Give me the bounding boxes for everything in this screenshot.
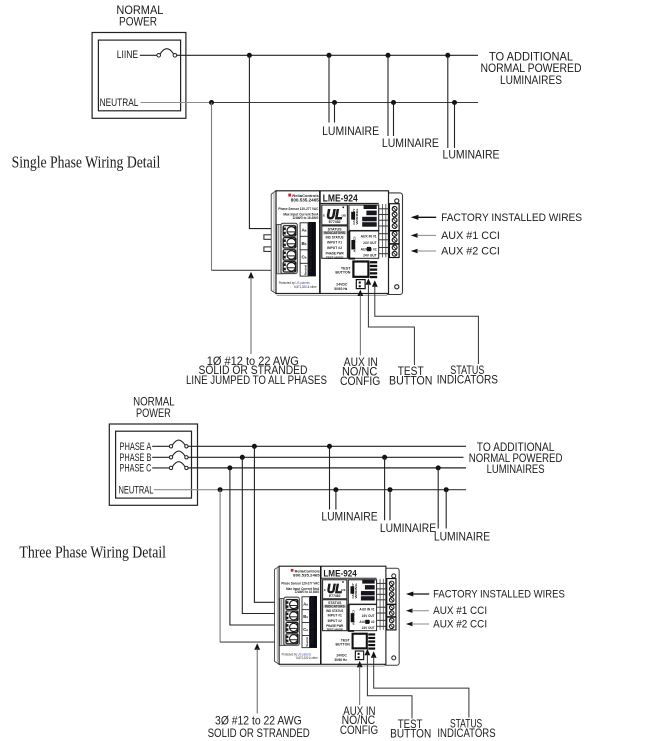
junction on NEUTRAL at feeder <box>209 100 214 105</box>
svg-text:LUMINAIRES: LUMINAIRES <box>487 462 545 476</box>
svg-text:AUX #1 CCI: AUX #1 CCI <box>433 605 487 617</box>
svg-text:POWER: POWER <box>119 15 157 29</box>
junction on NEUTRAL lum2 <box>391 100 396 105</box>
panel inner box <box>116 431 192 498</box>
svg-text:LUMINAIRES: LUMINAIRES <box>500 73 562 87</box>
wire neutral in panel <box>141 102 212 104</box>
wire lum2 neutral drop <box>393 103 395 137</box>
wire lum3 neutral drop <box>445 490 447 529</box>
svg-text:Single Phase Wiring Detail: Single Phase Wiring Detail <box>12 153 161 172</box>
junction NEUTRAL lum2 <box>388 487 393 492</box>
svg-text:LUMINAIRE: LUMINAIRE <box>321 510 377 524</box>
svg-text:LIINE: LIINE <box>117 49 138 61</box>
phase sensor U1 <box>271 191 402 296</box>
junction on NEUTRAL lum3 <box>452 100 457 105</box>
breaker CB1 <box>157 54 161 58</box>
wire NEUTRAL bus <box>220 489 466 491</box>
jumper stub to terminal C <box>264 247 284 252</box>
junction NEUTRAL lum1 <box>333 487 338 492</box>
junction on LINE lum3 <box>445 53 450 58</box>
test button callout leader <box>365 649 371 655</box>
wire lum1 phase drop <box>329 446 331 509</box>
aux in config callout leader <box>357 661 363 667</box>
wire lum3 line drop <box>447 55 449 148</box>
jumper stub to terminal B <box>264 235 284 240</box>
svg-text:PHASE C: PHASE C <box>120 462 152 474</box>
phase sensor U2 <box>275 566 400 666</box>
status indicators callout leader <box>371 651 377 657</box>
junction PHASE B feeder <box>240 455 245 460</box>
wire feeder neutral to U1 terminal N <box>212 269 285 271</box>
svg-text:NEUTRAL: NEUTRAL <box>100 97 139 109</box>
svg-text:INDICATORS: INDICATORS <box>437 373 498 387</box>
junction on LINE lum2 <box>386 53 391 58</box>
svg-text:AUX #2 CCI: AUX #2 CCI <box>441 246 500 258</box>
breaker CB-C <box>152 467 169 469</box>
wire PHASE A bus <box>188 445 466 447</box>
wire lum1 neutral drop <box>334 103 336 123</box>
junction NEUTRAL feeder <box>218 487 223 492</box>
svg-text:LUMINAIRE: LUMINAIRE <box>382 136 439 150</box>
test button callout leader <box>366 278 372 284</box>
breaker CB-A <box>152 445 169 447</box>
svg-text:LUMINAIRE: LUMINAIRE <box>380 521 436 535</box>
svg-text:POWER: POWER <box>136 406 171 420</box>
wire gauge callout leader <box>248 272 254 278</box>
svg-text:LUMINAIRE: LUMINAIRE <box>434 530 490 544</box>
aux 1 cci callout <box>411 233 418 238</box>
wire feeder phase A to U2 <box>254 446 287 602</box>
wire feeder phase C to U2 <box>230 468 287 625</box>
junction on NEUTRAL lum1 <box>332 100 337 105</box>
wire lum3 neutral drop <box>454 103 456 149</box>
wire lum2 phase drop <box>384 457 386 520</box>
junction PHASE C lum3 <box>436 465 441 470</box>
aux 2 cci callout <box>406 622 413 626</box>
wire lum2 neutral drop <box>389 490 391 521</box>
wire LINE bus <box>177 54 478 56</box>
wire feeder line to U1 terminal A <box>249 55 284 228</box>
wire feeder neutral to U2 <box>220 641 287 643</box>
svg-text:CONFIG: CONFIG <box>340 723 378 737</box>
svg-text:AUX #2 CCI: AUX #2 CCI <box>433 618 487 630</box>
factory installed wires callout <box>406 592 413 597</box>
aux 2 cci callout <box>411 249 418 254</box>
svg-text:FACTORY INSTALLED WIRES: FACTORY INSTALLED WIRES <box>441 212 582 224</box>
svg-text:BUTTON: BUTTON <box>389 374 432 388</box>
panel outer box <box>92 33 186 119</box>
svg-text:AUX #1 CCI: AUX #1 CCI <box>441 230 500 242</box>
svg-text:CONFIG: CONFIG <box>340 374 380 388</box>
junction on LINE lum1 <box>327 53 332 58</box>
svg-text:BUTTON: BUTTON <box>390 726 431 740</box>
junction PHASE C feeder <box>227 465 232 470</box>
wire NEUTRAL bus <box>212 102 479 104</box>
junction PHASE A lum1 <box>327 444 332 449</box>
junction on LINE at feeder <box>247 53 252 58</box>
junction PHASE B lum2 <box>382 455 387 460</box>
wire gauge callout leader <box>254 643 260 649</box>
status indicators callout leader <box>372 280 378 286</box>
junction NEUTRAL lum3 <box>444 487 449 492</box>
wire lum3 phase drop <box>437 468 439 529</box>
wire PHASE B bus <box>188 456 463 458</box>
junction PHASE A feeder <box>252 444 257 449</box>
svg-text:LUMINAIRE: LUMINAIRE <box>322 124 379 138</box>
wire line stub <box>140 54 157 56</box>
aux in config callout leader <box>357 290 363 296</box>
wire feeder neutral vertical <box>219 490 221 642</box>
panel outer box <box>109 424 197 505</box>
wire feeder phase B to U2 <box>242 457 287 613</box>
svg-text:LUMINAIRE: LUMINAIRE <box>443 148 500 162</box>
svg-text:SOLID OR STRANDED: SOLID OR STRANDED <box>208 726 310 740</box>
wire lum1 line drop <box>328 55 330 122</box>
panel inner box <box>98 40 180 111</box>
svg-text:Three Phase Wiring Detail: Three Phase Wiring Detail <box>19 543 166 562</box>
wire PHASE C bus <box>188 467 466 469</box>
breaker CB-B <box>152 456 169 458</box>
wire lum2 line drop <box>387 55 389 136</box>
svg-text:LINE JUMPED TO ALL PHASES: LINE JUMPED TO ALL PHASES <box>186 373 327 387</box>
svg-text:FACTORY INSTALLED WIRES: FACTORY INSTALLED WIRES <box>433 588 565 600</box>
wire feeder neutral vertical <box>211 103 213 271</box>
aux 1 cci callout <box>406 609 413 613</box>
wire neutral in panel <box>154 489 220 491</box>
svg-text:NEUTRAL: NEUTRAL <box>119 485 154 497</box>
wire lum1 neutral drop <box>335 490 337 510</box>
svg-text:INDICATORS: INDICATORS <box>437 726 495 740</box>
factory installed wires callout <box>411 215 419 220</box>
